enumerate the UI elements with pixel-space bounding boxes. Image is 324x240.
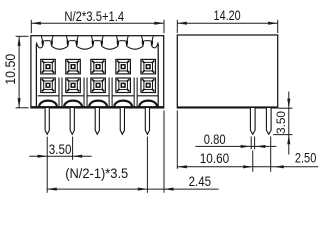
svg-text:2.45: 2.45	[189, 173, 212, 189]
svg-text:14.20: 14.20	[214, 7, 241, 23]
svg-text:N/2*3.5+1.4: N/2*3.5+1.4	[64, 8, 124, 24]
svg-text:2.50: 2.50	[295, 150, 317, 166]
svg-text:(N/2-1)*3.5: (N/2-1)*3.5	[65, 165, 128, 181]
svg-text:10.50: 10.50	[2, 54, 18, 85]
svg-text:3.50: 3.50	[276, 111, 288, 134]
svg-text:3.50: 3.50	[49, 141, 72, 157]
svg-text:0.80: 0.80	[204, 131, 226, 147]
svg-text:10.60: 10.60	[200, 150, 230, 166]
